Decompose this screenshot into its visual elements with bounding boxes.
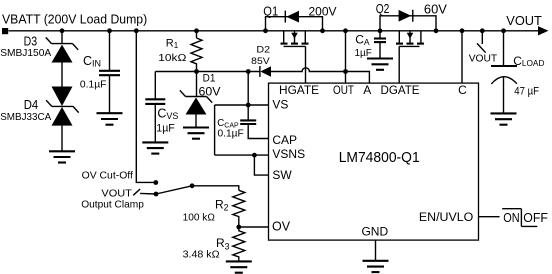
svg-text:D1: D1 bbox=[203, 73, 216, 85]
diode Q1 body 200V bbox=[285, 11, 299, 23]
svg-text:OV: OV bbox=[272, 220, 291, 234]
node switch pole bbox=[190, 183, 195, 188]
wire GND pin bbox=[375, 240, 377, 261]
svg-text:VOUT: VOUT bbox=[506, 13, 542, 28]
svg-text:3.48 kΩ: 3.48 kΩ bbox=[183, 250, 221, 261]
wire C_VS to ground bbox=[154, 104, 156, 142]
wire VSNS pin bbox=[215, 154, 269, 156]
node switch upper terminal bbox=[153, 180, 158, 185]
capacitor C_A 1uF bbox=[379, 31, 381, 39]
resistor R1 10k bbox=[191, 38, 202, 72]
capacitor C_LOAD 47uF bbox=[503, 31, 505, 66]
ground (C_VS) bbox=[142, 142, 168, 153]
node dot R1/D1/VS bbox=[194, 69, 199, 74]
svg-text:VSNS: VSNS bbox=[272, 147, 305, 161]
ground (D4) bbox=[49, 151, 75, 162]
capacitor C_CAP 0.1uF bbox=[247, 105, 249, 120]
svg-text:10kΩ: 10kΩ bbox=[158, 53, 186, 64]
svg-text:1µF: 1µF bbox=[156, 122, 175, 134]
capacitor C_IN 0.1uF bbox=[99, 71, 120, 75]
svg-text:VS: VS bbox=[272, 97, 288, 111]
svg-text:60V: 60V bbox=[199, 85, 221, 99]
node switch lower terminal bbox=[154, 192, 159, 197]
svg-text:1µF: 1µF bbox=[355, 47, 372, 59]
svg-text:DGATE: DGATE bbox=[381, 83, 420, 97]
svg-text:CAP: CAP bbox=[272, 133, 297, 147]
ground (C_LOAD) bbox=[491, 113, 517, 124]
wire EN/UVLO bbox=[479, 216, 500, 218]
node dot OV bbox=[236, 225, 241, 230]
wire R1 branch bbox=[196, 31, 198, 38]
transistor Q2 MOSFET bbox=[396, 31, 424, 47]
wire left rail VS to VSNS bbox=[214, 105, 216, 155]
diode Q2 body 60V bbox=[399, 10, 413, 22]
op-amp U1 LM74800-Q1 box bbox=[269, 83, 479, 240]
node dot VSNS/SW bbox=[252, 153, 257, 158]
svg-text:Output Clamp: Output Clamp bbox=[81, 199, 144, 211]
svg-text:OFF: OFF bbox=[523, 211, 548, 225]
junction Q1 drain bbox=[263, 28, 268, 33]
svg-text:C: C bbox=[458, 83, 467, 97]
node dot VS branch bbox=[246, 69, 251, 74]
wire D3 branch bbox=[61, 31, 63, 44]
transistor Q1 body diode loop bbox=[266, 17, 323, 31]
wire C_IN to ground bbox=[109, 75, 111, 113]
wire HGATE bbox=[305, 46, 307, 83]
svg-text:OV Cut-Off: OV Cut-Off bbox=[82, 169, 133, 181]
svg-text:VOUT: VOUT bbox=[469, 52, 498, 64]
svg-text:HGATE: HGATE bbox=[279, 83, 319, 97]
diode D2 85V bbox=[260, 66, 271, 77]
node VBATT terminal bbox=[2, 28, 8, 34]
junction Q2 source / C_A bbox=[378, 28, 383, 33]
diode D4 (TVS SMBJ33CA, bidirectional) bbox=[46, 87, 79, 126]
svg-text:Q1: Q1 bbox=[263, 4, 278, 18]
wire D1 branch bbox=[196, 72, 198, 97]
wire pole to R2 bbox=[192, 186, 239, 191]
wire VS pin bbox=[215, 104, 269, 106]
node dot OUT crossing bbox=[343, 69, 348, 74]
junction Q2 drain bbox=[434, 28, 439, 33]
wire D1 to ground bbox=[195, 115, 197, 128]
svg-text:EN/UVLO: EN/UVLO bbox=[419, 210, 474, 224]
wire D3 to D4 bbox=[61, 63, 63, 87]
junction Q1 source bbox=[320, 28, 325, 33]
resistor R2 100k bbox=[233, 190, 245, 227]
transistor Q1 MOSFET bbox=[281, 31, 309, 47]
wire DGATE bbox=[398, 46, 400, 83]
wire OV cut-off vertical bbox=[136, 31, 156, 183]
node VOUT callout bbox=[481, 31, 483, 44]
junction OUT branch bbox=[343, 28, 348, 33]
wire C_IN branch bbox=[109, 31, 111, 71]
ground (C_IN) bbox=[97, 113, 123, 125]
ground (D1) bbox=[183, 128, 209, 139]
svg-text:200V: 200V bbox=[309, 4, 337, 18]
svg-text:SMBJ33CA: SMBJ33CA bbox=[0, 111, 51, 123]
svg-text:SMBJ150A: SMBJ150A bbox=[0, 47, 51, 59]
svg-text:SW: SW bbox=[272, 168, 292, 182]
wire VS to D2 vertical bbox=[247, 72, 249, 106]
svg-text:0.1µF: 0.1µF bbox=[218, 128, 244, 139]
ground (C_A) bbox=[367, 59, 393, 70]
wire OV pin bbox=[239, 226, 269, 228]
junction OV cut-off branch bbox=[134, 28, 139, 33]
svg-text:LM74800-Q1: LM74800-Q1 bbox=[339, 149, 420, 166]
svg-text:0.1µF: 0.1µF bbox=[80, 78, 107, 90]
svg-text:VBATT (200V Load Dump): VBATT (200V Load Dump) bbox=[2, 12, 147, 26]
wire SW pin bbox=[254, 155, 268, 175]
ground (R3) bbox=[226, 261, 252, 272]
svg-text:Q2: Q2 bbox=[376, 2, 390, 16]
svg-text:60V: 60V bbox=[424, 3, 448, 17]
wire VS net horizontal bbox=[155, 71, 259, 73]
svg-text:D2: D2 bbox=[256, 45, 270, 56]
node VOUT arrow bbox=[538, 26, 548, 35]
svg-text:47 µF: 47 µF bbox=[514, 86, 539, 98]
wire OUT pin bbox=[345, 31, 347, 84]
transistor Q2 body diode loop bbox=[380, 16, 436, 31]
junction C_LOAD branch bbox=[501, 28, 506, 33]
switch lever bbox=[156, 186, 192, 194]
resistor R3 3.48k bbox=[233, 227, 245, 261]
junction D3 branch bbox=[60, 28, 65, 33]
junction C pin branch bbox=[460, 28, 465, 33]
svg-text:GND: GND bbox=[361, 225, 388, 239]
junction VOUT callout bbox=[480, 28, 485, 33]
wire C_VS branch bbox=[154, 72, 156, 100]
svg-text:OUT: OUT bbox=[333, 83, 355, 97]
wire D4 to ground bbox=[61, 126, 63, 152]
svg-text:100 kΩ: 100 kΩ bbox=[183, 213, 216, 224]
junction R1 branch bbox=[194, 28, 199, 33]
svg-text:A: A bbox=[363, 83, 371, 97]
ground (GND) bbox=[363, 261, 389, 272]
svg-text:ON: ON bbox=[503, 211, 519, 225]
capacitor C_VS 1uF bbox=[145, 99, 165, 104]
diode D1 60V zener bbox=[180, 90, 212, 114]
junction C_IN branch bbox=[107, 28, 112, 33]
svg-text:85V: 85V bbox=[251, 56, 270, 67]
wire main VBATT to VOUT bbox=[9, 30, 539, 32]
wire D2 to OUT/A with hop over HGATE bbox=[271, 68, 369, 83]
node dot C_CAP top bbox=[246, 103, 251, 108]
diode D3 (TVS SMBJ150A) bbox=[46, 37, 78, 62]
wire C pin bbox=[461, 31, 463, 84]
